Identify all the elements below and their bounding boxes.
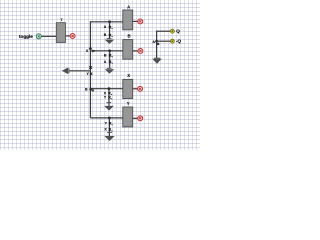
emitter bar 2	[107, 67, 112, 70]
wire rail L vertical	[89, 21, 91, 118]
left ground arrow	[62, 67, 68, 74]
svg-text:B: B	[104, 53, 107, 57]
rail 3 vertical	[108, 89, 110, 103]
wire resistor Y to probe	[133, 117, 138, 119]
output probe X (red circled X)	[138, 86, 143, 91]
node junction B-rail2	[108, 49, 111, 52]
output probe B (red circled X)	[138, 48, 143, 53]
node junction on rail L to resistor X	[89, 88, 92, 91]
resistor B body	[123, 40, 133, 60]
input probe (green circled X)	[36, 34, 41, 39]
output probe Y (red circled X)	[138, 116, 143, 121]
rail 4 lower stub	[108, 133, 110, 136]
transistor Y4 glyph	[109, 122, 113, 125]
emitter bar 3	[106, 101, 111, 104]
wire node X horizontal	[90, 88, 122, 90]
svg-text:B: B	[128, 34, 131, 39]
wire node A horizontal	[90, 21, 122, 23]
ground Q	[152, 59, 162, 64]
svg-text:Q: Q	[176, 29, 180, 34]
transistor Y glyph	[90, 73, 92, 75]
svg-text:-Q: -Q	[176, 39, 182, 44]
left ground emitter bar	[68, 68, 71, 73]
transistor X glyph	[92, 50, 94, 52]
output -Q (yellow circle)	[170, 39, 174, 43]
svg-text:A: A	[152, 40, 155, 44]
transistor A5 glyph	[157, 43, 159, 45]
wire Q horizontal	[157, 30, 171, 32]
wire node B horizontal	[90, 50, 122, 52]
svg-text:Y: Y	[104, 96, 107, 100]
svg-text:Y: Y	[86, 72, 89, 76]
svg-text:A: A	[104, 60, 107, 64]
transistor X3 glyph	[108, 92, 112, 95]
rail 2 vertical	[109, 51, 111, 68]
wire resistor B to probe	[133, 50, 138, 52]
transistor X4 glyph	[109, 128, 113, 131]
wire resistor X to probe	[133, 88, 138, 90]
ground 4	[104, 136, 114, 141]
ground 1	[105, 40, 115, 44]
ground 3	[104, 106, 114, 111]
resistor X body	[123, 79, 133, 98]
svg-text:X: X	[104, 128, 107, 132]
node junction A-rail1	[108, 20, 111, 23]
svg-text:X: X	[127, 73, 130, 78]
wire toggle to switch T	[41, 35, 56, 37]
switch T body	[56, 23, 65, 43]
output probe T (red circled X)	[70, 33, 75, 38]
svg-text:B: B	[104, 33, 107, 37]
output Q (yellow circle)	[170, 29, 174, 33]
transistor B glyph	[109, 34, 113, 37]
transistor Y3 glyph	[108, 96, 112, 99]
transistor B2 glyph	[109, 54, 113, 57]
emitter bar 4	[107, 131, 112, 134]
svg-text:B: B	[85, 87, 88, 91]
transistor A2 glyph	[109, 61, 113, 64]
output probe A (red circled X)	[138, 19, 143, 24]
svg-text:Y: Y	[105, 121, 108, 125]
node junction -Q	[155, 40, 158, 43]
emitter bar 1	[107, 37, 112, 40]
emitter bar Q	[154, 57, 160, 60]
resistor A body	[123, 10, 133, 30]
wire to left ground	[70, 70, 91, 72]
svg-text:toggle: toggle	[19, 34, 33, 39]
wire node Y horizontal	[90, 117, 122, 119]
svg-text:Y: Y	[127, 101, 130, 106]
transistor B3 glyph	[92, 90, 94, 92]
node junction X on rail L	[89, 47, 92, 50]
svg-text:X: X	[86, 49, 89, 53]
rail 4 vertical	[108, 118, 110, 132]
transistor A glyph	[109, 26, 113, 29]
rail Q vertical	[156, 31, 158, 58]
svg-text:T: T	[61, 18, 64, 22]
wire switch T to probe	[65, 35, 70, 37]
node junction Y-rail4	[108, 117, 111, 120]
wire -Q horizontal	[157, 40, 171, 42]
rail 3 lower stub	[108, 103, 110, 106]
rail 1 vertical	[109, 22, 111, 39]
transistor glyph above left ground	[89, 66, 92, 69]
wire resistor A to probe	[133, 20, 138, 22]
node junction X-rail3	[108, 87, 111, 90]
resistor Y body	[123, 107, 133, 127]
svg-text:A: A	[104, 25, 107, 29]
svg-text:A: A	[127, 4, 130, 9]
ground 2	[105, 69, 115, 73]
